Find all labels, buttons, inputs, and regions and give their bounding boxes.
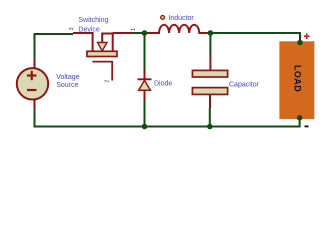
svg-text:Device: Device [78, 26, 100, 33]
svg-text:3: 3 [69, 27, 75, 30]
svg-text:1: 1 [131, 28, 137, 31]
svg-text:Inductor: Inductor [168, 15, 194, 22]
svg-text:Diode: Diode [154, 80, 172, 87]
svg-text:Voltage: Voltage [56, 74, 79, 81]
svg-text:LOAD: LOAD [293, 65, 303, 92]
svg-text:2: 2 [105, 80, 111, 83]
svg-text:Switching: Switching [78, 17, 108, 24]
svg-text:Source: Source [56, 82, 78, 89]
svg-text:Capacitor: Capacitor [229, 81, 260, 88]
